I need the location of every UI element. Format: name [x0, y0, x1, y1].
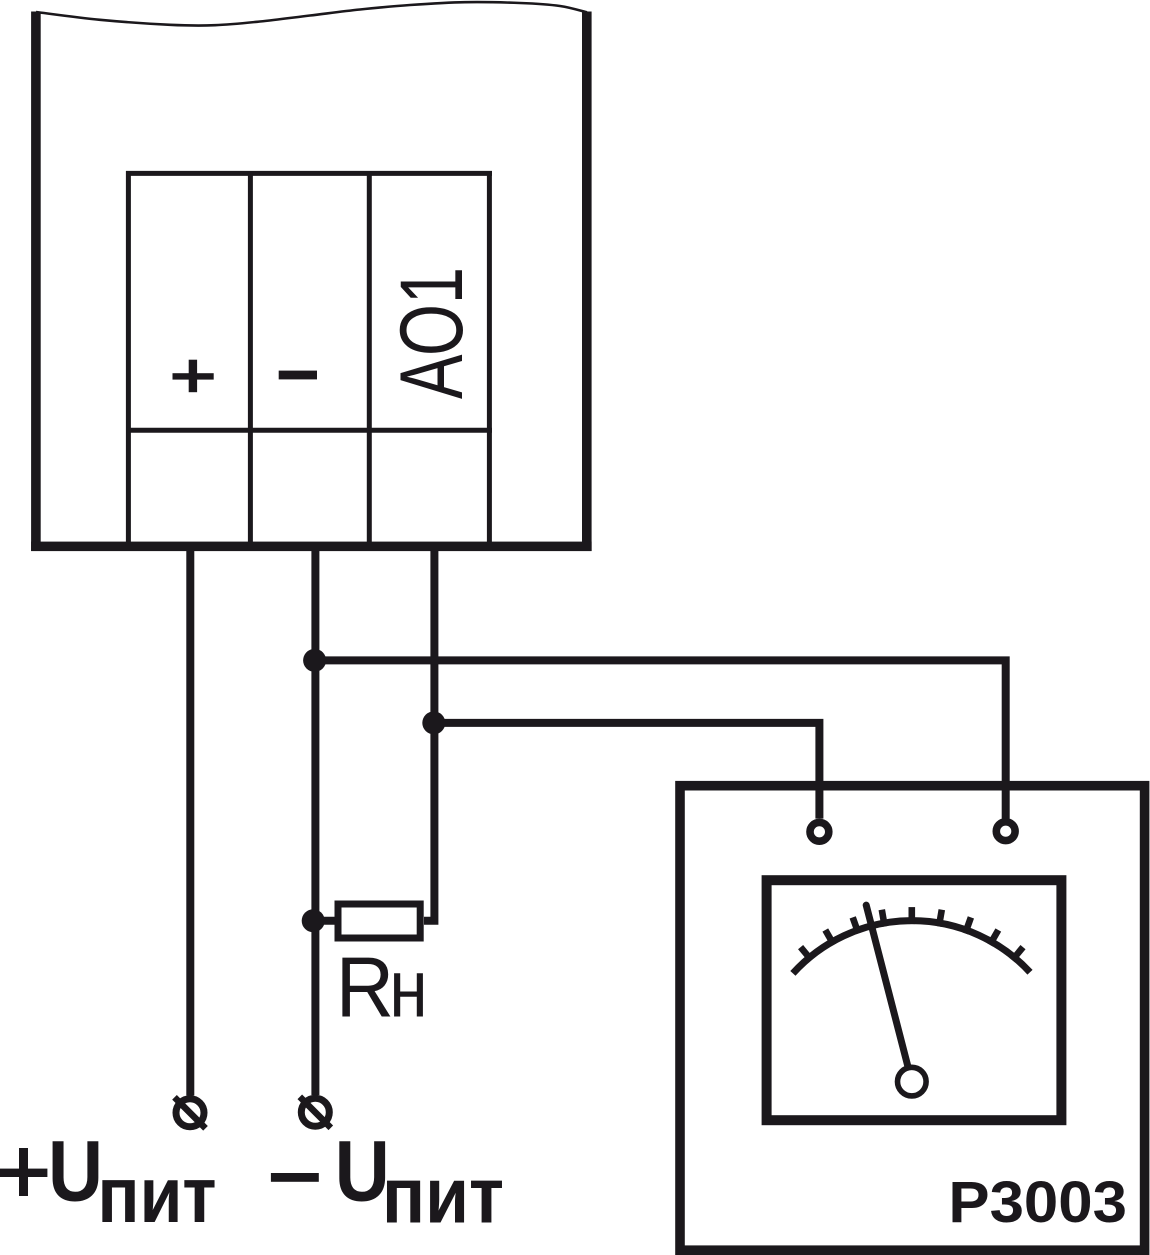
- junction on W3 / H2: [422, 711, 445, 734]
- power label +Upit: [0, 1124, 217, 1240]
- svg-text:R: R: [336, 941, 394, 1036]
- wire H2 from W3 junction to left meter terminal: [434, 723, 819, 819]
- resistor RH (load) body: [338, 904, 420, 938]
- wire W2 from - terminal down to -Upit: [311, 551, 319, 1095]
- meter needle pivot: [898, 1067, 927, 1096]
- device A (controller) outline left edge: [31, 12, 41, 552]
- device A outline right edge: [582, 12, 592, 552]
- junction on W2 / resistor stub: [302, 909, 325, 932]
- meter scale arc: [793, 921, 1030, 974]
- svg-text:пит: пит: [382, 1151, 504, 1240]
- meter face: [767, 880, 1062, 1120]
- svg-text:пит: пит: [98, 1150, 217, 1239]
- junction on W2 / H1: [303, 649, 326, 672]
- terminal block outline: [126, 171, 492, 546]
- meter scale ticks: [801, 907, 1023, 960]
- meter needle: [866, 905, 909, 1072]
- node -Upit screw terminal: [300, 1097, 331, 1128]
- meter right input terminal: [996, 822, 1015, 841]
- terminal - label: [279, 371, 317, 380]
- wire H1 from W2 junction to right meter terminal: [315, 660, 1005, 818]
- wire W3 from AO1 down to load resistor: [424, 551, 434, 921]
- node +Upit screw terminal: [175, 1097, 206, 1128]
- terminal block horizontal divider: [126, 428, 492, 433]
- power label -Upit: [271, 1124, 504, 1240]
- svg-text:АО1: АО1: [381, 267, 481, 399]
- meter P3003 (millivoltmeter) outer box: [680, 786, 1145, 1250]
- wire stub from W2 to resistor left: [312, 917, 336, 925]
- wire W1 from + terminal down to +Upit: [186, 551, 194, 1096]
- terminal + label: [173, 360, 214, 393]
- device A torn-edge wavy top: [36, 2, 587, 25]
- device A outline bottom edge: [31, 542, 592, 552]
- terminal block divider 1: [248, 171, 253, 546]
- svg-text:н: н: [389, 944, 428, 1035]
- meter left input terminal: [810, 822, 829, 841]
- terminal block divider 2: [367, 171, 372, 546]
- svg-text:Р3003: Р3003: [948, 1170, 1127, 1235]
- resistor RH value label: [336, 941, 428, 1036]
- svg-text:U: U: [48, 1124, 103, 1220]
